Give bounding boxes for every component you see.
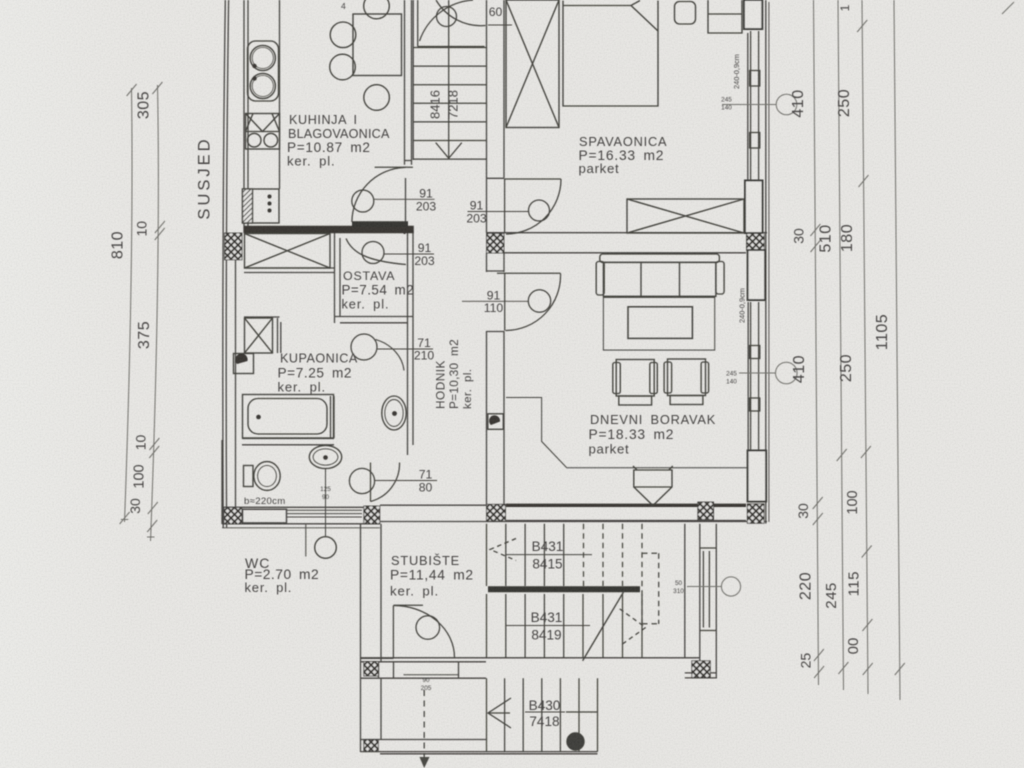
mid rail dark bar bbox=[488, 586, 640, 592]
pier kitchen/bath west bbox=[225, 233, 243, 260]
hatch piers bbox=[224, 233, 764, 752]
armchair 1 bbox=[616, 360, 654, 397]
living bottom wall band bbox=[380, 505, 767, 521]
shower partition bbox=[278, 318, 281, 353]
hall east wall lower bbox=[487, 331, 505, 506]
upper staircase bbox=[413, 0, 486, 159]
stair steps upper bbox=[413, 48, 486, 160]
exit dashed line bbox=[423, 690, 425, 758]
wc door leaf bbox=[370, 463, 372, 502]
chair left 1 bbox=[330, 22, 356, 48]
pier east wall at divider bbox=[747, 233, 765, 251]
ostava door knob bbox=[362, 242, 384, 264]
ostava south wall bbox=[335, 317, 414, 323]
flight B steps bbox=[487, 594, 643, 658]
bedroom door leaf bbox=[504, 179, 561, 233]
pier living south-west bbox=[487, 504, 506, 521]
wardrobe X south bbox=[627, 199, 744, 233]
far corner tick bbox=[1002, 2, 1014, 14]
stair down arrow bbox=[436, 143, 462, 159]
stubiste mid wall bbox=[361, 658, 717, 679]
sofa arm right bbox=[716, 262, 724, 295]
living door leaf bbox=[497, 273, 561, 330]
washing machine bbox=[234, 354, 254, 374]
flight C arrow bbox=[488, 698, 511, 728]
pier living south-mid bbox=[698, 502, 714, 520]
shower box bbox=[245, 318, 273, 353]
living door leader+bar bbox=[462, 300, 528, 302]
flight B diagonal cut bbox=[583, 592, 624, 661]
stubiste door knob bbox=[416, 616, 440, 640]
left inner dim line bbox=[151, 85, 159, 541]
sewage leader line bbox=[306, 469, 326, 557]
wc bottom wall band bbox=[222, 507, 380, 524]
wc fixtures bbox=[244, 445, 342, 558]
kitchen counter edge bbox=[279, 0, 281, 189]
landing knob circle bbox=[437, 7, 457, 27]
right dim line L2 bbox=[838, 0, 844, 690]
armchair 2 bbox=[668, 359, 706, 396]
living east window bbox=[750, 302, 760, 450]
kitchen south wall end cap bbox=[404, 228, 406, 234]
toilet tank bbox=[244, 466, 254, 487]
entry threshold lines bbox=[287, 510, 362, 517]
pier wc south-west bbox=[224, 508, 242, 525]
kitchen sink unit bbox=[248, 41, 279, 101]
chair left 2 bbox=[330, 54, 356, 80]
living bottom wall dark edge bbox=[506, 504, 746, 507]
coffee table bbox=[628, 307, 692, 339]
newel dot bbox=[567, 733, 584, 750]
hall east wall upper bbox=[487, 0, 505, 233]
door label leaders bbox=[374, 25, 592, 712]
bedroom door knob bbox=[529, 200, 550, 221]
wardrobe X west bbox=[506, 0, 559, 128]
flight C mid line bbox=[566, 711, 598, 713]
left outer dim line bbox=[125, 88, 133, 522]
stubiste east wall bbox=[685, 524, 700, 658]
south outer face line bbox=[222, 527, 380, 529]
dining table bbox=[353, 14, 402, 76]
b430 fraction bar bbox=[525, 711, 565, 713]
toilet bowl bbox=[254, 462, 280, 491]
rug bbox=[603, 297, 714, 350]
kitchen south wall (dark) bbox=[244, 226, 414, 233]
stubiste window leader bbox=[687, 586, 721, 588]
left dim ticks bbox=[120, 82, 165, 532]
right dim line L1 bbox=[814, 0, 819, 685]
wc door knob bbox=[349, 468, 374, 493]
vent shaft bbox=[488, 414, 504, 430]
pier stubiste west lower bbox=[364, 662, 379, 677]
b431 upper fraction bar bbox=[506, 554, 592, 556]
chair bottom bbox=[364, 85, 390, 111]
pier bedroom SE bbox=[745, 181, 763, 234]
bedroom door arc bbox=[506, 179, 561, 234]
landing box top bbox=[418, 0, 485, 47]
ostava door arc bbox=[346, 239, 406, 265]
corner sink bbox=[382, 396, 406, 430]
stair center line bbox=[448, 0, 450, 158]
nightstand bbox=[675, 2, 696, 25]
flight A steps dashed bbox=[584, 524, 659, 624]
spavaonica furniture bbox=[506, 0, 744, 233]
right dim line L3 bbox=[862, 0, 868, 694]
exit arrow head bbox=[420, 757, 430, 768]
bathtub bbox=[243, 395, 334, 439]
wc door arc bbox=[371, 463, 400, 502]
kupaonica door arc bbox=[376, 340, 405, 371]
kitchen door header bbox=[375, 166, 413, 168]
stove burners bbox=[247, 133, 261, 147]
kitchen door knob bbox=[352, 190, 374, 212]
stubiste bottom wall bbox=[361, 740, 598, 754]
stubiste door threshold bbox=[404, 674, 459, 676]
stair west edge line bbox=[412, 0, 414, 160]
kitchen west wall bbox=[244, 0, 248, 233]
living window leader bbox=[739, 372, 776, 374]
pier bedroom NE bbox=[744, 0, 762, 29]
b431 lower fraction bar bbox=[506, 625, 590, 627]
east outer secondary line bbox=[768, 2, 770, 522]
bedroom window marker circle bbox=[776, 94, 797, 115]
stubiste door leaf bbox=[392, 606, 394, 659]
sofa back bbox=[600, 254, 720, 263]
wall stub below kitchen door bbox=[405, 178, 407, 222]
dresser bbox=[708, 0, 742, 33]
landing label bar bbox=[488, 24, 512, 26]
pier stubiste south-west bbox=[364, 740, 379, 752]
right dim line L4 bbox=[894, 0, 900, 700]
ostava east wall / bath east wall bbox=[408, 233, 414, 455]
flight C steps (B430) bbox=[487, 678, 598, 751]
stair west wall bbox=[405, 0, 412, 165]
stove bbox=[246, 114, 280, 150]
stubiste staircase bbox=[420, 524, 659, 768]
white wall piers east bbox=[744, 0, 766, 502]
bedroom east window bbox=[750, 31, 760, 180]
bedroom door leader+bar bbox=[468, 211, 529, 213]
landing door arcs bbox=[420, 0, 474, 41]
sink basin 2 bbox=[250, 73, 275, 98]
wc west outer face bbox=[221, 440, 223, 524]
right dim ticks bbox=[810, 224, 824, 678]
pier wc south-east bbox=[364, 506, 380, 524]
faucet dots bbox=[252, 64, 256, 68]
dnevni boravak furniture bbox=[488, 254, 747, 506]
living door arc bbox=[506, 273, 561, 330]
hall closet X bbox=[245, 234, 331, 269]
stubiste door arc bbox=[393, 605, 454, 657]
pier hall east wall bbox=[487, 234, 505, 254]
ostava door leader+bar bbox=[384, 253, 434, 255]
stubiste window marker circle bbox=[721, 577, 740, 596]
closet bottom / bath top wall bbox=[244, 268, 335, 273]
pier living NE bbox=[748, 250, 766, 300]
bath shelf line bbox=[244, 316, 280, 318]
flight B arrowhead dashed bbox=[620, 609, 646, 646]
ostava west wall bbox=[335, 233, 341, 323]
property line (SUSJED boundary) bbox=[223, 0, 229, 528]
kitchen door leader+bar bbox=[374, 198, 435, 200]
lower cabinet bbox=[243, 189, 280, 223]
pier living SE bbox=[748, 451, 767, 502]
kupaonica door knob bbox=[351, 334, 377, 360]
west wall inner face (bath block) bbox=[235, 260, 237, 507]
stubiste west wall bbox=[361, 524, 382, 752]
kupaonica fixtures bbox=[234, 318, 407, 438]
hall east wall mid segment bbox=[487, 253, 505, 272]
sink basin 1 bbox=[250, 45, 275, 70]
bed bbox=[563, 1, 658, 107]
tub/wc partition bbox=[242, 396, 334, 445]
living window marker circle bbox=[776, 362, 798, 384]
bedroom/living dividing wall bbox=[487, 233, 768, 253]
fireplace funnel bbox=[634, 470, 672, 506]
entry door panel bbox=[243, 509, 287, 523]
pier east wall south bbox=[747, 504, 764, 524]
kitchen door leaf (dark) bbox=[352, 221, 408, 227]
living door knob bbox=[528, 290, 550, 312]
stubiste east window wall bbox=[715, 524, 717, 679]
kupaonica door leader+bar bbox=[378, 348, 434, 350]
dashed landing lines bbox=[642, 553, 659, 624]
stubiste east window bbox=[700, 548, 716, 631]
sofa arm left bbox=[596, 262, 604, 296]
wc door leader+bar bbox=[375, 480, 437, 482]
flight A steps solid bbox=[487, 524, 564, 586]
flight A arrow dashed bbox=[490, 539, 516, 561]
east outer wall face bbox=[748, 0, 766, 524]
pier stubiste mid east bbox=[692, 661, 711, 678]
pedestal sink bbox=[309, 445, 341, 468]
floor boundary polyline bbox=[506, 398, 747, 468]
kitchen door arc bbox=[352, 167, 406, 222]
cabinet dots bbox=[268, 195, 272, 199]
bedroom window leader bbox=[722, 104, 776, 106]
sofa seat cushions bbox=[603, 262, 716, 296]
sewage marker circle bbox=[315, 537, 337, 559]
chair top bbox=[364, 0, 390, 19]
